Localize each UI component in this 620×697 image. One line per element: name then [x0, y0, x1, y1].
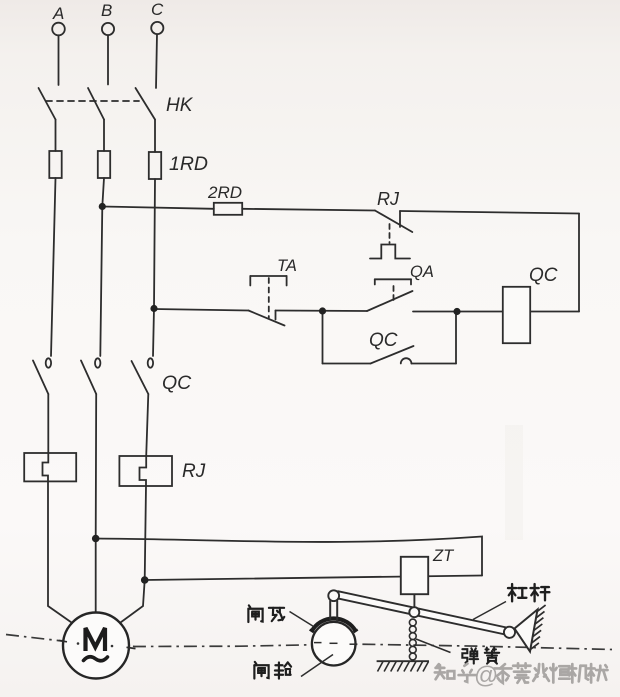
svg-text:2RD: 2RD	[207, 183, 242, 202]
svg-text:QC: QC	[529, 265, 558, 286]
svg-text:@: @	[474, 662, 498, 689]
svg-text:C: C	[151, 0, 164, 19]
svg-text:QA: QA	[410, 263, 434, 281]
svg-text:1RD: 1RD	[169, 153, 208, 175]
svg-text:HK: HK	[166, 95, 194, 116]
svg-text:QC: QC	[369, 330, 398, 351]
svg-text:TA: TA	[277, 257, 297, 275]
svg-text:QC: QC	[162, 372, 192, 394]
svg-text:B: B	[101, 1, 112, 20]
svg-text:RJ: RJ	[377, 189, 400, 209]
svg-text:RJ: RJ	[182, 461, 206, 482]
svg-text:A: A	[52, 4, 64, 23]
svg-text:ZT: ZT	[432, 547, 455, 565]
